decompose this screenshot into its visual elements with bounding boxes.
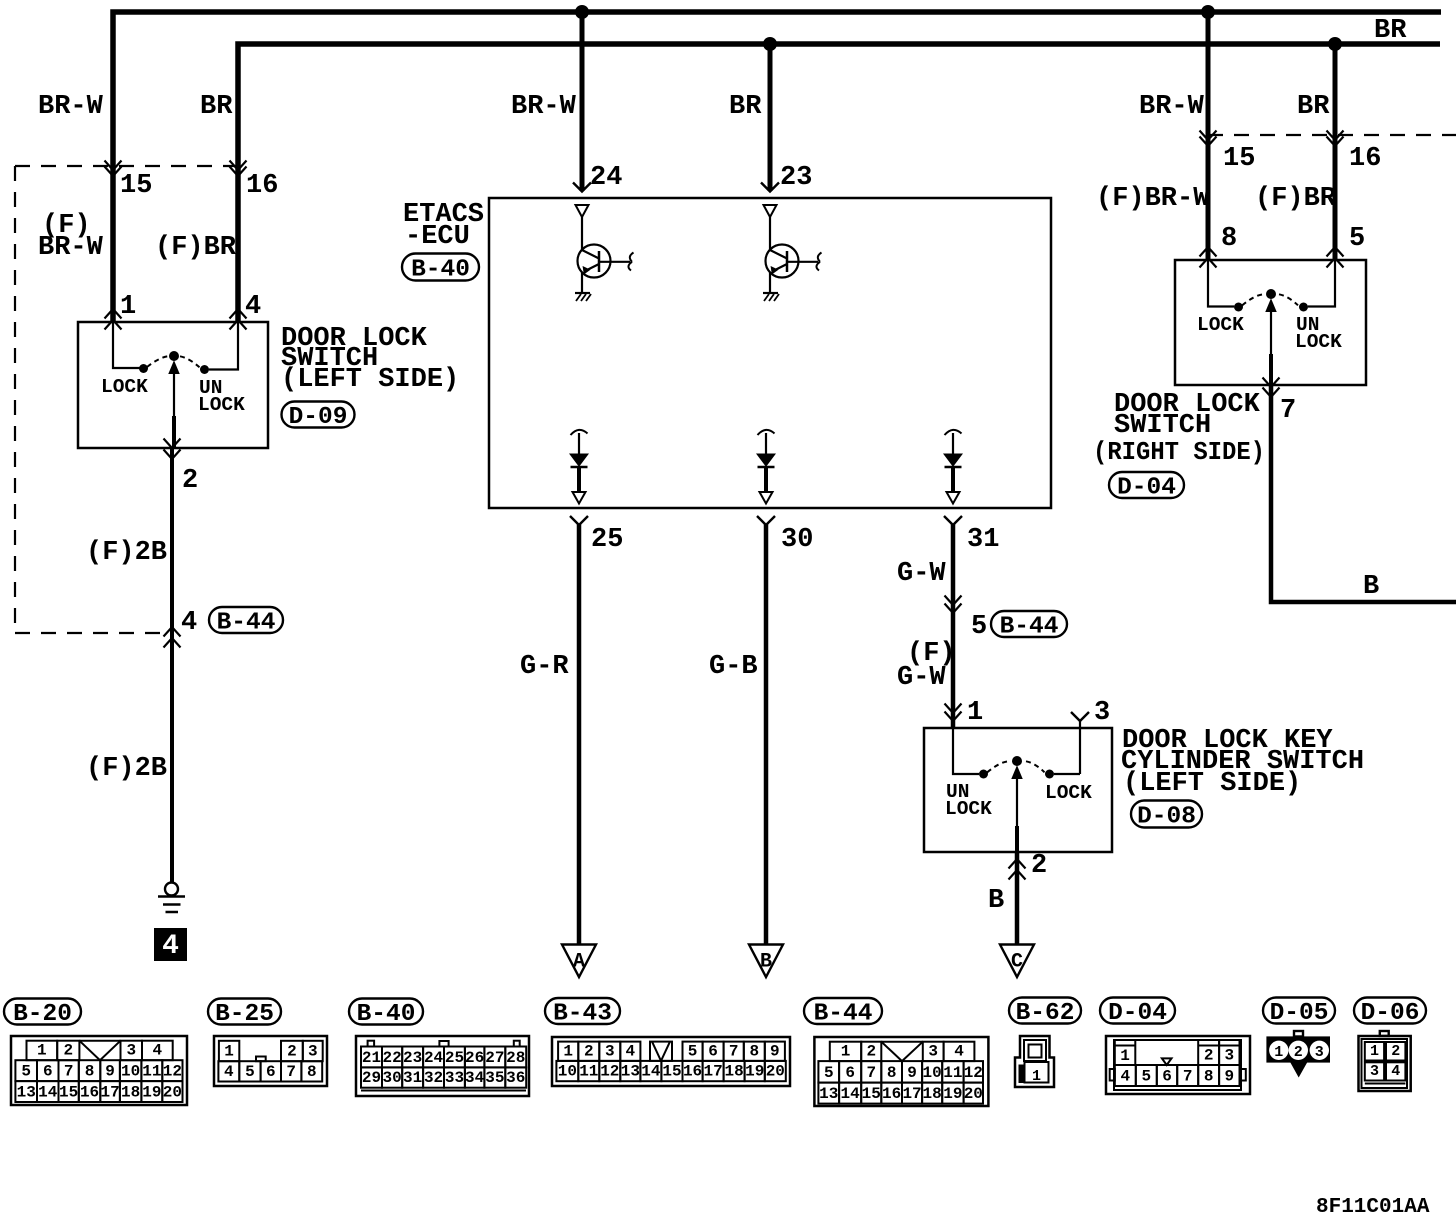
connector ref D-09 [282,402,355,428]
svg-text:7: 7 [64,1063,74,1081]
svg-text:8: 8 [307,1063,317,1081]
svg-text:2: 2 [182,466,198,496]
svg-text:6: 6 [845,1064,855,1082]
svg-text:31: 31 [403,1069,422,1087]
switch throw arcs (dashed) [147,356,168,367]
switch common pole dot [169,351,179,361]
wire BR-W right drop to switch pin 8 [1206,12,1211,260]
connector chevrons pin 1 [105,309,122,319]
svg-text:BR: BR [729,92,762,122]
svg-text:34: 34 [465,1069,485,1087]
svg-text:(F)2B: (F)2B [86,754,167,784]
svg-text:7: 7 [1183,1068,1193,1086]
connector chevrons pin 4 [230,309,247,319]
svg-text:17: 17 [703,1063,722,1081]
ground symbol [158,883,185,913]
svg-text:9: 9 [907,1064,917,1082]
wire B from pin 7 to right edge [1271,385,1456,602]
svg-text:1: 1 [1032,1068,1041,1085]
svg-text:26: 26 [465,1049,484,1067]
svg-text:9: 9 [770,1042,780,1060]
svg-text:14: 14 [841,1085,861,1103]
svg-text:18: 18 [923,1085,942,1103]
svg-text:17: 17 [100,1084,119,1102]
svg-text:6: 6 [708,1042,718,1060]
svg-text:3: 3 [1315,1044,1324,1061]
connector chevrons pin 15 (right) [1200,131,1217,141]
svg-text:G-B: G-B [709,652,758,682]
svg-text:4: 4 [162,931,179,962]
svg-text:27: 27 [485,1049,504,1067]
svg-text:5: 5 [1349,224,1365,254]
connector chevrons pin 8 [1200,247,1217,257]
dashed harness boundary (right) [1208,134,1456,136]
svg-text:B-44: B-44 [814,1001,873,1028]
svg-text:3: 3 [1370,1063,1379,1080]
female connector symbol pin 30 [757,516,775,525]
svg-text:8: 8 [749,1042,759,1060]
svg-text:1: 1 [563,1042,573,1060]
connector ref B-40 (bottom) [349,999,423,1025]
svg-text:D-09: D-09 [289,404,348,431]
connector pinout B-43 [552,1037,790,1086]
svg-text:5: 5 [688,1042,698,1060]
svg-text:7: 7 [729,1042,739,1060]
door lock switch (left side) box D-09 [78,322,268,448]
svg-text:(LEFT SIDE): (LEFT SIDE) [1123,769,1301,799]
connector ref B-44 (left) [209,607,283,633]
wire 24 BR-W drop from top bus [580,12,585,191]
svg-text:6: 6 [43,1063,53,1081]
diode D3 (pin 31) (inside ETACS-ECU) [944,430,962,504]
switch common pole dot (key cylinder) [1012,756,1022,766]
svg-text:7: 7 [866,1064,876,1082]
svg-text:B-40: B-40 [357,1001,416,1028]
svg-text:1: 1 [224,1043,234,1061]
svg-text:4: 4 [954,1043,964,1061]
svg-text:5: 5 [971,612,987,642]
svg-text:21: 21 [362,1049,381,1067]
connector chevrons pin 5 [1327,247,1344,257]
svg-text:9: 9 [1224,1068,1234,1086]
svg-text:8: 8 [1221,224,1237,254]
connector ref B-40 [402,254,479,281]
svg-text:LOCK: LOCK [1295,331,1342,353]
svg-text:4: 4 [1120,1068,1130,1086]
svg-text:4: 4 [626,1042,636,1060]
svg-text:15: 15 [1223,144,1255,174]
wire pin 2 inside box (key cylinder) [1015,826,1019,852]
svg-text:2: 2 [866,1043,876,1061]
diode D1 (pin 25) (inside ETACS-ECU) [570,430,588,504]
svg-text:15: 15 [59,1084,78,1102]
svg-text:1: 1 [1120,1047,1130,1065]
svg-text:B: B [988,886,1004,916]
connector chevrons pin 7 [1263,378,1280,388]
svg-text:16: 16 [1349,144,1381,174]
svg-text:15: 15 [662,1063,681,1081]
switch common pole dot (right) [1266,289,1276,299]
svg-text:23: 23 [780,163,812,193]
svg-text:BR: BR [200,92,233,122]
wire: BR power bus (second) with corner down-left to door lock switch pin 4 [238,44,1440,322]
svg-text:6: 6 [1162,1068,1172,1086]
svg-text:11: 11 [579,1063,598,1081]
switch actuator arrow [173,370,175,430]
connector pinout B-40 [356,1036,529,1096]
svg-text:13: 13 [17,1084,36,1102]
svg-text:2: 2 [584,1042,594,1060]
svg-text:18: 18 [121,1084,140,1102]
connector ref B-44 (right) [991,611,1067,637]
connector ref B-44 (bottom) [804,998,882,1024]
off-page arrow B [749,945,783,978]
connector ref B-62 [1009,998,1081,1024]
svg-text:1: 1 [120,292,136,322]
connector chevrons joint 4 / B-44 [164,627,181,637]
svg-text:24: 24 [590,163,622,193]
svg-text:19: 19 [142,1084,161,1102]
svg-text:G-W: G-W [897,663,946,693]
svg-text:A: A [573,951,585,974]
wire (F)2B from pin 2 to ground [170,448,174,882]
svg-text:13: 13 [621,1063,640,1081]
svg-text:16: 16 [246,171,278,201]
connector chevrons pin 2 (key cylinder) [1009,859,1026,869]
connector ref D-04 (bottom) [1100,998,1175,1024]
pin 3 stub with female connector symbol [1071,712,1089,721]
junction: bus BR / wire 23 [763,37,777,51]
svg-text:2: 2 [287,1043,297,1061]
connector ref D-04 [1109,472,1184,498]
svg-text:20: 20 [163,1084,182,1102]
svg-text:BR-W: BR-W [1139,92,1205,122]
svg-text:G-W: G-W [897,559,946,589]
svg-text:13: 13 [819,1085,838,1103]
svg-text:30: 30 [781,525,813,555]
female connector symbol pin 24 [573,183,591,192]
wire: BR-W power bus (top) with corner down-left to door lock switch pin 1 [113,12,1441,322]
svg-text:11: 11 [142,1063,161,1081]
connector ref B-43 [545,998,620,1024]
svg-text:D-08: D-08 [1137,804,1196,831]
svg-text:15: 15 [862,1085,881,1103]
svg-text:8: 8 [85,1063,95,1081]
svg-text:3: 3 [928,1043,938,1061]
connector pinout B-25 [214,1036,327,1086]
svg-text:8: 8 [887,1064,897,1082]
connector ref D-06 [1354,998,1426,1024]
svg-text:18: 18 [724,1063,743,1081]
connector pinout B-44 [814,1037,988,1106]
svg-text:23: 23 [403,1049,422,1067]
switch contact from pin 3 (key cylinder) [1054,773,1080,775]
svg-text:35: 35 [485,1069,504,1087]
svg-text:2: 2 [1031,851,1047,881]
connector chevrons pin 16 (right) [1327,131,1344,141]
svg-text:14: 14 [641,1063,661,1081]
connector chevrons pin 1 (key cylinder) [945,704,962,714]
wire G-W pin 31 to key cylinder switch [951,524,956,728]
svg-text:D-05: D-05 [1270,1000,1329,1027]
svg-text:28: 28 [506,1049,525,1067]
svg-text:36: 36 [506,1069,525,1087]
switch actuator arrow (right) [1270,308,1272,368]
svg-text:25: 25 [591,525,623,555]
wire 23 BR drop from second bus [768,44,773,191]
door lock switch (right side) box D-04 [1175,260,1366,385]
svg-text:7: 7 [1280,396,1296,426]
connector chevrons pin 2 (left) [164,439,181,449]
svg-text:19: 19 [943,1085,962,1103]
female connector symbol pin 25 [570,516,588,525]
svg-text:D-04: D-04 [1108,1000,1167,1027]
svg-text:4: 4 [224,1063,234,1081]
svg-text:B-44: B-44 [217,610,276,637]
svg-text:5: 5 [21,1063,31,1081]
pin 24 entry triangle [576,205,589,217]
connector chevrons pin 16 (left) [230,161,247,171]
svg-text:BR-W: BR-W [511,92,577,122]
svg-text:16: 16 [80,1084,99,1102]
junction: bus BR-W / wire 24 [575,5,589,19]
svg-text:20: 20 [964,1085,983,1103]
svg-text:D-06: D-06 [1361,1000,1420,1027]
wire pin 7 inside box [1269,354,1273,385]
wire pin 2 inside box [172,416,176,448]
svg-text:1: 1 [967,698,983,728]
svg-text:10: 10 [121,1063,140,1081]
svg-text:16: 16 [683,1063,702,1081]
svg-text:12: 12 [964,1064,983,1082]
svg-text:1: 1 [841,1043,851,1061]
pin 23 entry triangle [764,205,777,217]
svg-text:2: 2 [1204,1047,1214,1065]
svg-text:(F)BR: (F)BR [155,233,237,263]
off-page arrow A [562,945,596,978]
svg-text:5: 5 [824,1064,834,1082]
svg-text:4: 4 [181,608,197,638]
connector chevrons pin 15 (left) [105,161,122,171]
svg-text:4: 4 [153,1042,163,1060]
svg-text:9: 9 [105,1063,115,1081]
wire B from key cylinder pin 2 to C [1015,852,1020,944]
svg-text:(F)BR-W: (F)BR-W [1096,184,1210,214]
svg-text:32: 32 [424,1069,443,1087]
svg-text:B-40: B-40 [411,257,470,284]
svg-text:(LEFT SIDE): (LEFT SIDE) [281,365,459,395]
svg-text:4: 4 [1391,1063,1400,1080]
junction: bus BR / right BR drop [1328,37,1342,51]
svg-text:(F)BR: (F)BR [1255,184,1337,214]
connector ref D-05 [1263,998,1335,1024]
svg-text:B-44: B-44 [1000,614,1059,641]
svg-text:16: 16 [882,1085,901,1103]
svg-text:B: B [1363,572,1379,602]
svg-text:7: 7 [286,1063,296,1081]
svg-text:8F11C01AA: 8F11C01AA [1316,1196,1430,1219]
svg-text:19: 19 [745,1063,764,1081]
svg-text:5: 5 [1141,1068,1151,1086]
female connector symbol pin 31 [944,516,962,525]
svg-text:29: 29 [362,1069,381,1087]
switch throw arcs (key cylinder) [987,761,1008,772]
switch contact from pin 1 [113,322,140,368]
svg-text:C: C [1011,951,1023,974]
svg-text:25: 25 [445,1049,464,1067]
svg-text:(RIGHT SIDE): (RIGHT SIDE) [1093,437,1265,467]
ground reference number 4 (black square) [154,928,187,961]
svg-text:BR: BR [1297,92,1330,122]
svg-text:(F)2B: (F)2B [86,538,167,568]
connector ref B-25 [208,999,281,1025]
connector pinout D-06 [1359,1031,1411,1091]
svg-text:24: 24 [424,1049,444,1067]
svg-text:30: 30 [382,1069,401,1087]
svg-text:33: 33 [445,1069,464,1087]
svg-text:1: 1 [37,1042,47,1060]
transistor Q2 (pin 23 driver) (inside ETACS-ECU) [763,217,822,301]
svg-text:B: B [760,951,772,974]
switch contact from pin 1 (key cylinder) [953,728,979,774]
svg-text:LOCK: LOCK [1197,314,1244,336]
svg-text:BR-W: BR-W [38,233,104,263]
svg-text:B-43: B-43 [553,1001,612,1028]
svg-text:15: 15 [120,171,152,201]
svg-text:12: 12 [600,1063,619,1081]
off-page arrow C [1000,945,1034,978]
connector pinout B-62 [1015,1036,1054,1087]
svg-text:D-04: D-04 [1117,475,1176,502]
svg-text:G-R: G-R [520,652,569,682]
connector pinout D-05 [1266,1031,1330,1077]
switch actuator arrow (key cylinder) [1016,775,1018,840]
svg-text:LOCK: LOCK [945,798,992,820]
door lock key cylinder switch box D-08 [924,728,1112,852]
diode D2 (pin 30) (inside ETACS-ECU) [757,430,775,504]
svg-text:BR: BR [1374,16,1407,46]
switch contact from pin 8 [1208,260,1234,307]
svg-text:14: 14 [38,1084,58,1102]
transistor Q1 (pin 24 driver) (inside ETACS-ECU) [575,217,634,301]
svg-text:17: 17 [902,1085,921,1103]
svg-text:2: 2 [63,1042,73,1060]
female connector symbol pin 23 [761,183,779,192]
connector ref B-20 [4,999,81,1025]
svg-text:1: 1 [1274,1044,1283,1061]
switch contact from pin 5 [1308,260,1335,307]
svg-text:LOCK: LOCK [101,376,148,398]
wire G-B pin 30 to B [764,524,769,945]
svg-text:2: 2 [1294,1044,1303,1061]
svg-text:B-62: B-62 [1016,1000,1075,1027]
switch throw arcs (right) [1242,294,1263,305]
svg-text:2: 2 [1391,1043,1400,1060]
svg-text:5: 5 [245,1063,255,1081]
svg-text:20: 20 [766,1063,785,1081]
connector pinout D-04 [1106,1036,1250,1094]
svg-text:10: 10 [923,1064,942,1082]
svg-text:B-25: B-25 [215,1001,274,1028]
ETACS-ECU box B-40 [489,198,1051,508]
svg-text:LOCK: LOCK [1045,782,1092,804]
svg-text:31: 31 [967,525,999,555]
svg-text:LOCK: LOCK [198,394,245,416]
svg-text:-ECU: -ECU [405,222,470,252]
switch contact from pin 4 [209,322,238,370]
wire G-R pin 25 to A [577,524,582,945]
svg-text:3: 3 [308,1043,318,1061]
dashed harness boundary (left) [15,165,237,167]
svg-text:6: 6 [266,1063,276,1081]
svg-text:3: 3 [1094,698,1110,728]
svg-text:3: 3 [1224,1047,1234,1065]
svg-text:8: 8 [1204,1068,1214,1086]
svg-text:3: 3 [126,1042,136,1060]
junction: bus BR-W / right BR-W drop [1201,5,1215,19]
connector pinout B-20 [11,1036,187,1105]
svg-text:12: 12 [163,1063,182,1081]
svg-text:10: 10 [558,1063,577,1081]
wire BR right drop to switch pin 5 [1333,44,1338,260]
svg-text:B-20: B-20 [13,1001,72,1028]
svg-text:3: 3 [605,1042,615,1060]
svg-text:11: 11 [943,1064,962,1082]
svg-text:22: 22 [382,1049,401,1067]
connector ref D-08 [1131,801,1202,828]
svg-text:BR-W: BR-W [38,92,104,122]
svg-text:4: 4 [245,292,261,322]
svg-text:1: 1 [1370,1043,1379,1060]
connector chevrons pin 5 / B-44 [945,596,962,606]
